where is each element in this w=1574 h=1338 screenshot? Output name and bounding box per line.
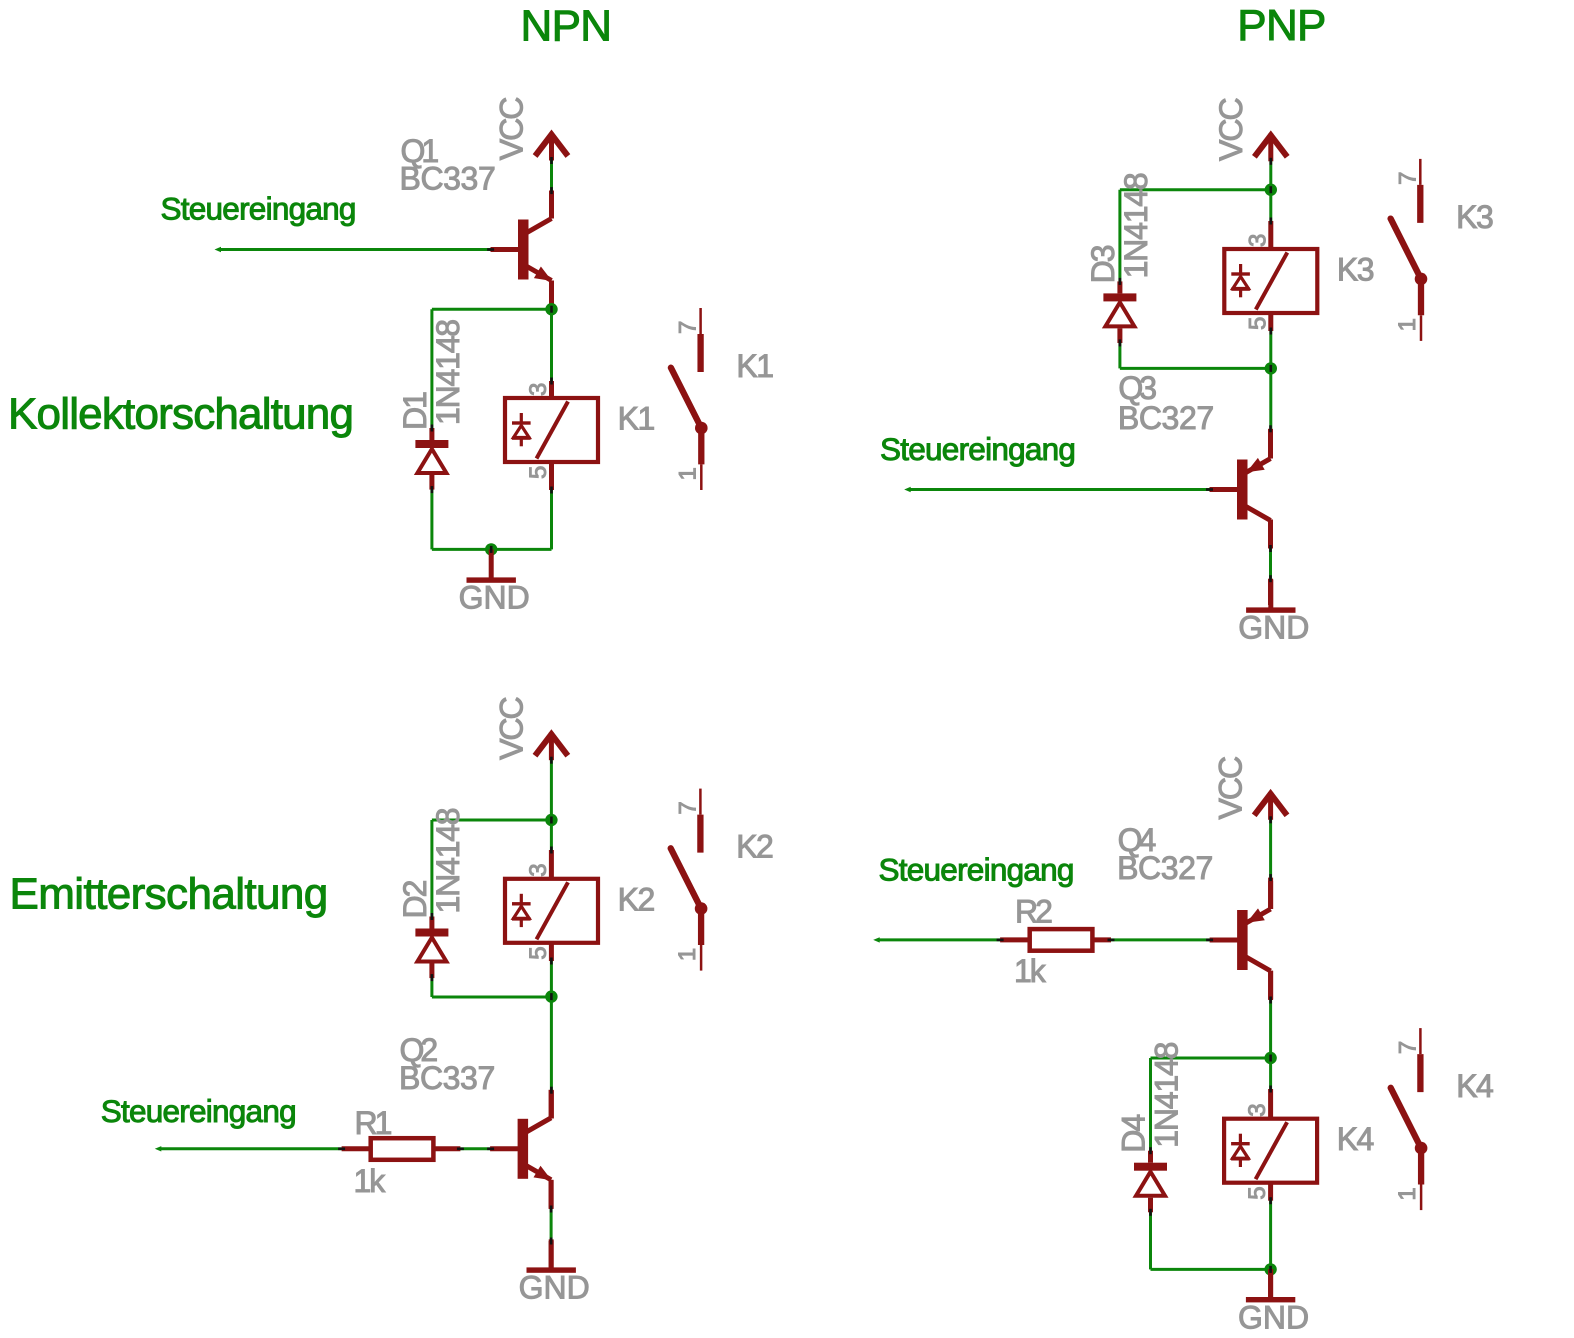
- svg-text:K2: K2: [736, 829, 773, 865]
- svg-text:Steuereingang: Steuereingang: [880, 431, 1075, 467]
- svg-text:GND: GND: [459, 580, 530, 616]
- svg-text:1N4148: 1N4148: [1149, 1042, 1185, 1147]
- svg-text:3: 3: [1244, 1103, 1271, 1116]
- svg-text:3: 3: [525, 863, 552, 876]
- svg-text:K3: K3: [1337, 252, 1374, 288]
- svg-text:K4: K4: [1337, 1121, 1374, 1157]
- svg-text:7: 7: [1394, 172, 1421, 185]
- svg-text:VCC: VCC: [494, 98, 530, 160]
- svg-text:BC337: BC337: [400, 161, 496, 197]
- svg-text:PNP: PNP: [1237, 1, 1325, 50]
- svg-text:Steuereingang: Steuereingang: [879, 852, 1074, 888]
- svg-text:1: 1: [674, 948, 701, 961]
- svg-text:1N4148: 1N4148: [430, 808, 466, 913]
- svg-text:K1: K1: [736, 348, 773, 384]
- svg-text:1: 1: [1394, 1187, 1421, 1200]
- svg-text:D4: D4: [1116, 1115, 1152, 1153]
- svg-text:D3: D3: [1085, 245, 1121, 283]
- svg-text:Steuereingang: Steuereingang: [161, 191, 356, 227]
- svg-text:1k: 1k: [354, 1163, 387, 1199]
- svg-text:D2: D2: [397, 880, 433, 918]
- svg-text:3: 3: [525, 383, 552, 396]
- svg-text:7: 7: [1394, 1041, 1421, 1054]
- svg-text:BC337: BC337: [399, 1060, 495, 1096]
- svg-text:R1: R1: [355, 1105, 392, 1141]
- svg-text:Kollektorschaltung: Kollektorschaltung: [8, 389, 353, 438]
- svg-text:K3: K3: [1456, 199, 1493, 235]
- svg-text:K1: K1: [618, 401, 655, 437]
- svg-text:K4: K4: [1456, 1068, 1493, 1104]
- svg-text:GND: GND: [519, 1270, 590, 1306]
- svg-text:Emitterschaltung: Emitterschaltung: [10, 869, 328, 918]
- svg-text:5: 5: [525, 466, 552, 479]
- svg-text:BC327: BC327: [1117, 850, 1213, 886]
- svg-text:VCC: VCC: [1213, 99, 1249, 161]
- svg-text:K2: K2: [618, 881, 655, 917]
- svg-text:R2: R2: [1015, 894, 1052, 930]
- svg-text:BC327: BC327: [1118, 400, 1214, 436]
- svg-text:Steuereingang: Steuereingang: [101, 1093, 296, 1129]
- svg-text:5: 5: [525, 946, 552, 959]
- svg-text:7: 7: [675, 321, 702, 334]
- svg-text:VCC: VCC: [1213, 757, 1249, 819]
- svg-text:GND: GND: [1238, 1299, 1309, 1335]
- svg-text:1k: 1k: [1014, 953, 1047, 989]
- svg-text:1: 1: [674, 467, 701, 480]
- svg-text:5: 5: [1244, 1186, 1271, 1199]
- svg-text:3: 3: [1244, 234, 1271, 247]
- svg-text:7: 7: [674, 801, 701, 814]
- svg-text:1N4148: 1N4148: [430, 320, 466, 425]
- svg-text:1N4148: 1N4148: [1118, 173, 1154, 278]
- svg-text:GND: GND: [1238, 610, 1309, 646]
- svg-text:NPN: NPN: [521, 2, 612, 51]
- svg-text:D1: D1: [397, 392, 433, 430]
- svg-text:1: 1: [1394, 318, 1421, 331]
- svg-text:VCC: VCC: [493, 697, 529, 759]
- svg-text:5: 5: [1244, 317, 1271, 330]
